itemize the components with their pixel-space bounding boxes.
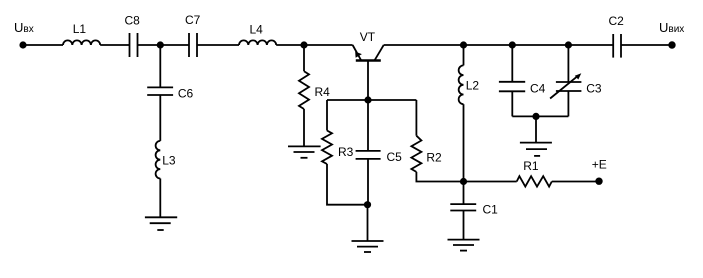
label R3 (338, 145, 354, 159)
inductor L2 (459, 45, 464, 182)
wire L1 to C8 (100, 44, 129, 46)
label C4 (530, 81, 546, 95)
svg-text:C4: C4 (530, 81, 546, 95)
ground under C1 (448, 240, 480, 251)
wire C6 to L3 (159, 95, 161, 141)
label R2 (426, 151, 442, 165)
node Uвих output terminal (668, 41, 675, 48)
label +E (592, 157, 607, 171)
label L4 (250, 23, 264, 37)
svg-text:R2: R2 (426, 151, 442, 165)
wire down to R3 (326, 100, 328, 131)
svg-text:L3: L3 (162, 154, 176, 168)
node junction base/R3/C5/R2 (364, 96, 371, 103)
label L3 (162, 154, 176, 168)
node junction R3/C5 bottom (364, 201, 371, 208)
wire bottom node to ground (367, 205, 369, 241)
wire L4 to VT emitter (276, 44, 352, 46)
wire L3 to ground (159, 179, 161, 218)
transistor VT (353, 45, 384, 61)
node junction L4/R4 (300, 41, 307, 48)
wire C4/C3 bottom (512, 115, 568, 117)
wire R4 to ground (303, 109, 305, 146)
svg-text:VT: VT (360, 30, 376, 44)
wire down to R2 (415, 100, 417, 136)
svg-text:+E: +E (592, 157, 607, 171)
wire C2 to output (621, 44, 672, 46)
node junction C4 top (509, 41, 516, 48)
ground under R3/C5 (352, 241, 384, 252)
svg-text:L1: L1 (73, 22, 87, 36)
svg-text:C6: C6 (178, 87, 194, 101)
label VT (360, 30, 376, 44)
svg-text:R1: R1 (523, 159, 539, 173)
svg-text:R4: R4 (315, 85, 331, 99)
label Uвх (14, 20, 34, 35)
label C2 (609, 14, 625, 28)
capacitor C6 (147, 87, 173, 95)
inductor L1 (63, 40, 100, 45)
label C5 (387, 150, 403, 164)
wire node to R4 (303, 45, 305, 71)
ground under L3 (145, 217, 177, 230)
inductor L3 (156, 141, 161, 179)
label Uвих (659, 20, 684, 35)
capacitor C2 (613, 34, 621, 58)
svg-text:C7: C7 (185, 13, 201, 27)
capacitor C7 (189, 33, 197, 57)
node junction C4/C3 ground (532, 113, 539, 120)
wire node to C6 (159, 45, 161, 87)
svg-text:L2: L2 (466, 79, 480, 93)
label L2 (466, 79, 480, 93)
wire R2 to bottom rail (416, 172, 516, 182)
wire VT base down (367, 61, 369, 101)
label C7 (185, 13, 201, 27)
resistor R1 (517, 176, 552, 186)
node +E terminal (595, 178, 602, 185)
svg-text:C8: C8 (125, 13, 141, 27)
label C8 (125, 13, 141, 27)
wire node to ground (535, 116, 537, 142)
wire R3 to bottom node (327, 164, 368, 205)
wire input to L1 (23, 44, 63, 46)
node junction L2/C1/rail (460, 178, 467, 185)
label C3 (586, 82, 602, 96)
svg-text:R3: R3 (338, 145, 354, 159)
capacitor C8 (130, 33, 138, 57)
capacitor C1 (450, 182, 476, 240)
label R4 (315, 85, 331, 99)
label C1 (483, 203, 499, 217)
resistor R3 (322, 131, 332, 165)
label L1 (73, 22, 87, 36)
node Uвх input terminal (19, 41, 26, 48)
ground under R4 (288, 146, 321, 157)
svg-text:L4: L4 (250, 23, 264, 37)
node junction L2 top (460, 41, 467, 48)
svg-text:C5: C5 (387, 150, 403, 164)
inductor L4 (239, 40, 276, 45)
capacitor C5 (356, 100, 381, 205)
svg-text:C1: C1 (483, 203, 499, 217)
label C6 (178, 87, 194, 101)
wire C8 to C7 (138, 44, 190, 46)
node junction C3 top (565, 41, 572, 48)
capacitor C4 (499, 45, 525, 116)
wire VT collector to C2 (384, 44, 614, 46)
capacitor C3 variable (550, 45, 581, 116)
node junction C8/C7/C6 (157, 41, 164, 48)
wire R1 to +E (552, 181, 599, 183)
svg-text:C2: C2 (609, 14, 625, 28)
label R1 (523, 159, 539, 173)
resistor R4 (299, 71, 309, 109)
wire C7 to L4 (197, 44, 239, 46)
ground under C4/C3 (520, 143, 552, 156)
svg-text:C3: C3 (586, 82, 602, 96)
wire base node horizontal (327, 99, 416, 101)
resistor R2 (411, 136, 421, 172)
